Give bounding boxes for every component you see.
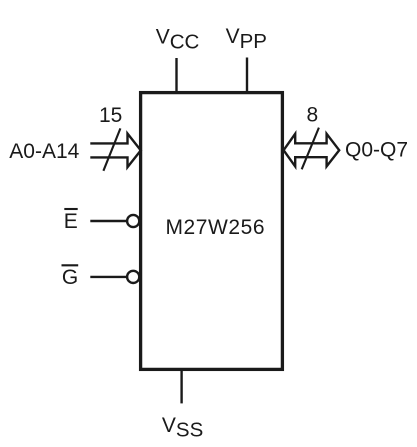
- memory chip U1 body: [141, 93, 283, 370]
- svg-text:A0-A14: A0-A14: [9, 140, 79, 163]
- svg-text:G: G: [62, 266, 78, 289]
- VSS wire: [180, 370, 182, 404]
- address bus arrow: [90, 134, 141, 168]
- E wire: [90, 220, 127, 222]
- G inverter bubble: [127, 271, 139, 283]
- data bus slash: [302, 128, 319, 170]
- data bus double arrow: [284, 134, 340, 167]
- svg-text:8: 8: [307, 104, 319, 127]
- address bus slash: [103, 128, 120, 170]
- VCC wire: [175, 58, 177, 93]
- svg-text:E: E: [64, 210, 78, 233]
- G wire: [90, 276, 127, 278]
- E inverter bubble: [127, 215, 139, 227]
- svg-text:15: 15: [99, 104, 122, 127]
- E overline: [64, 208, 77, 210]
- G overline: [62, 264, 79, 266]
- svg-text:M27W256: M27W256: [166, 216, 266, 239]
- VPP wire: [246, 58, 248, 93]
- svg-text:Q0-Q7: Q0-Q7: [345, 139, 408, 162]
